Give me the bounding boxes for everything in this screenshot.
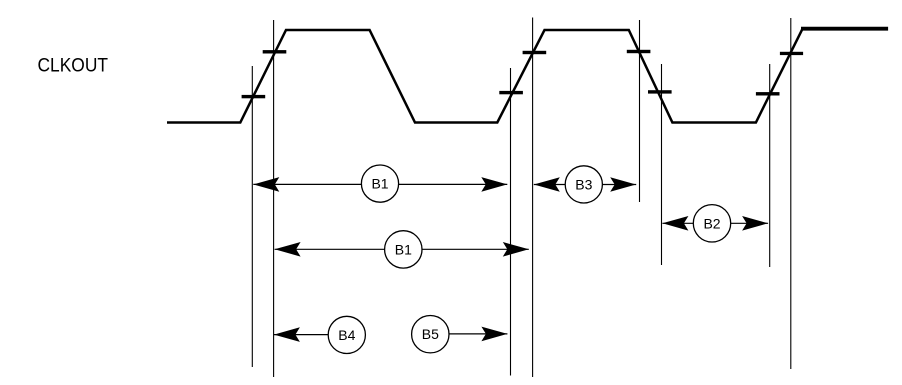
reference line L4 (rise2 upper threshold) <box>532 18 534 378</box>
dimension arrow B2 (low pulse width) <box>662 216 768 231</box>
reference line L2 (rise1 upper threshold) <box>273 20 275 377</box>
dimension arrow B4 (points left to upper threshold line) <box>274 327 347 342</box>
tick mark T4 on rising edge 2 upper <box>523 51 547 54</box>
wire final high segment <box>801 27 888 31</box>
dimension arrow B1 (lower, period at upper threshold) <box>275 242 529 257</box>
reference line L8 (rise3 upper threshold) <box>790 18 792 369</box>
label B2 <box>693 205 730 242</box>
svg-text:B1: B1 <box>395 241 412 257</box>
tick mark T2 on rising edge 1 upper <box>263 50 287 53</box>
svg-text:B4: B4 <box>338 327 355 343</box>
reference line L3 (rise2 lower threshold) <box>510 68 512 376</box>
label B5 <box>412 316 449 353</box>
reference line L7 (rise3 lower threshold) <box>769 64 771 267</box>
tick mark T6 on falling edge 2 lower <box>648 90 672 93</box>
label B1 (lower) <box>385 231 422 268</box>
tick mark T5 on falling edge 2 upper <box>627 50 651 53</box>
dimension arrow B5 (points right to lower threshold line) <box>430 327 507 342</box>
tick mark T3 on rising edge 2 lower <box>499 91 523 94</box>
tick mark T1 on rising edge 1 lower <box>242 95 266 98</box>
label B1 (upper) <box>361 165 398 202</box>
reference line L1 (rise1 lower threshold) <box>251 66 253 367</box>
reference line L5 (fall2 upper threshold) <box>639 20 641 202</box>
label B3 <box>565 166 602 203</box>
svg-text:CLKOUT: CLKOUT <box>38 55 109 77</box>
wire CLKOUT waveform <box>167 29 803 123</box>
dimension arrow B1 (upper, period at lower threshold) <box>253 177 507 192</box>
dimension arrow B3 (high pulse width) <box>534 177 636 192</box>
reference line L6 (fall2 lower threshold) <box>661 64 663 265</box>
tick mark T8 on rising edge 3 upper <box>780 52 803 55</box>
svg-text:B3: B3 <box>575 176 592 192</box>
label B4 <box>328 316 365 353</box>
svg-text:B5: B5 <box>422 326 439 342</box>
svg-text:B1: B1 <box>371 176 388 192</box>
tick mark T7 on rising edge 3 lower <box>756 92 780 95</box>
svg-text:B2: B2 <box>703 215 720 231</box>
